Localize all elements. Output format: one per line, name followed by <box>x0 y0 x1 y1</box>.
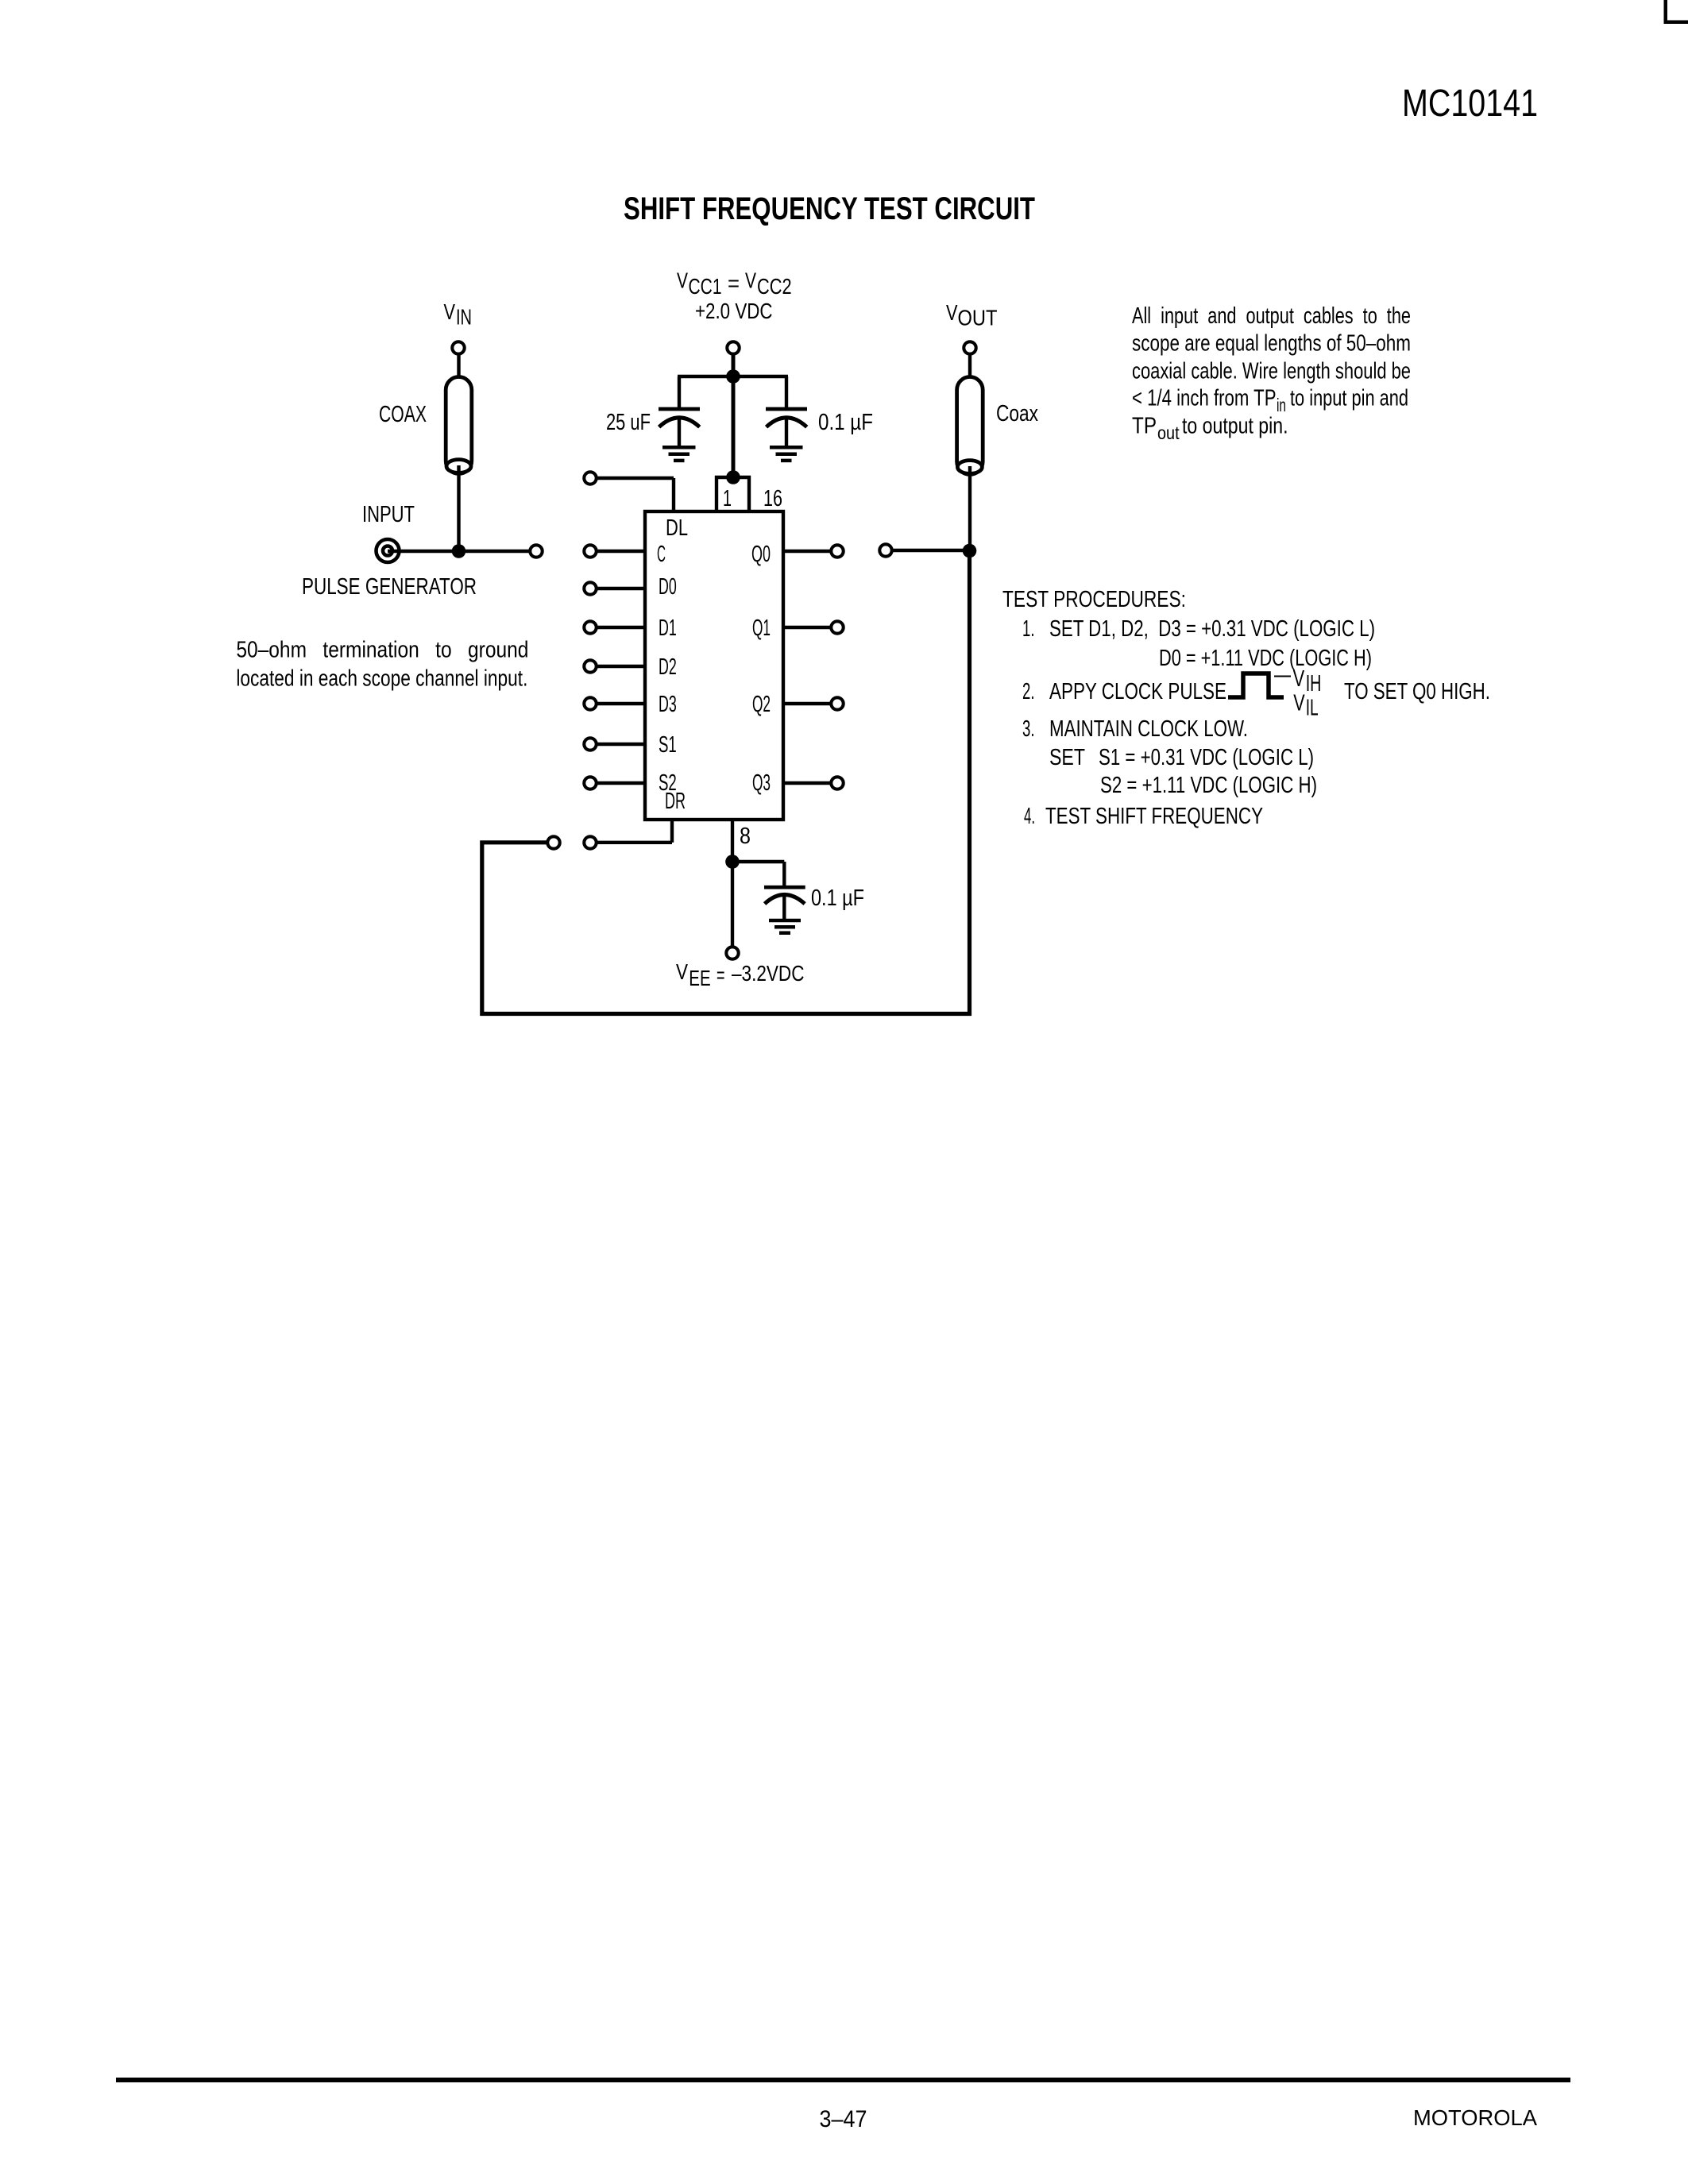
svg-text:V: V <box>946 300 958 325</box>
svg-text:to input pin and: to input pin and <box>1290 386 1408 411</box>
svg-text:CC1: CC1 <box>689 274 722 299</box>
svg-text:Q2: Q2 <box>752 692 771 717</box>
svg-text:out: out <box>1157 423 1180 443</box>
svg-text:SET D1, D2, D3 = +0.31 VDC (L: SET D1, D2, D3 = +0.31 VDC (LOGIC L) <box>1049 616 1375 642</box>
svg-text:8: 8 <box>740 824 751 849</box>
svg-text:3–47: 3–47 <box>820 2106 867 2132</box>
svg-text:TEST SHIFT FREQUENCY: TEST SHIFT FREQUENCY <box>1045 804 1263 829</box>
svg-text:V: V <box>1293 691 1305 716</box>
svg-text:TO SET Q0 HIGH.: TO SET Q0 HIGH. <box>1344 679 1490 704</box>
svg-text:to output pin.: to output pin. <box>1182 413 1288 438</box>
svg-text:Q0: Q0 <box>751 542 771 567</box>
svg-text:OUT: OUT <box>958 306 998 330</box>
svg-text:V: V <box>677 268 688 293</box>
svg-text:16: 16 <box>763 486 782 511</box>
svg-text:25 uF: 25 uF <box>606 410 651 435</box>
svg-text:CC2: CC2 <box>757 274 792 299</box>
svg-text:D0 = +1.11 VDC (LOGIC H): D0 = +1.11 VDC (LOGIC H) <box>1159 646 1372 671</box>
svg-text:COAX: COAX <box>379 402 427 427</box>
svg-text:S1 = +0.31 VDC (LOGIC L): S1 = +0.31 VDC (LOGIC L) <box>1099 745 1314 770</box>
svg-text:DR: DR <box>665 789 686 814</box>
svg-text:D1: D1 <box>659 615 677 641</box>
svg-text:2.: 2. <box>1022 679 1035 704</box>
svg-text:MC10141: MC10141 <box>1402 83 1538 125</box>
svg-text:coaxial cable. Wire length sho: coaxial cable. Wire length should be <box>1132 359 1411 384</box>
svg-text:EE: EE <box>689 966 710 990</box>
svg-text:SET: SET <box>1049 745 1085 770</box>
svg-text:IL: IL <box>1306 696 1319 721</box>
svg-text:V: V <box>745 268 756 293</box>
svg-text:scope are equal lengths of 50–: scope are equal lengths of 50–ohm <box>1132 331 1411 357</box>
svg-text:0.1 µF: 0.1 µF <box>818 410 873 435</box>
svg-text:1: 1 <box>723 486 732 511</box>
svg-text:< 1/4 inch from TP: < 1/4 inch from TP <box>1132 386 1277 411</box>
svg-text:IN: IN <box>456 305 472 330</box>
svg-text:Q3: Q3 <box>752 770 771 796</box>
svg-text:SHIFT FREQUENCY TEST CIRCUIT: SHIFT FREQUENCY TEST CIRCUIT <box>624 191 1035 226</box>
svg-text:4.: 4. <box>1024 804 1035 829</box>
svg-text:DL: DL <box>666 515 688 541</box>
svg-text:0.1 µF: 0.1 µF <box>811 886 864 911</box>
svg-text:Coax: Coax <box>996 401 1038 426</box>
svg-text:All input and output cables to: All input and output cables to the <box>1132 303 1411 329</box>
svg-text:=: = <box>717 963 725 987</box>
svg-text:PULSE GENERATOR: PULSE GENERATOR <box>302 574 477 600</box>
svg-text:C: C <box>657 542 666 567</box>
svg-text:D0: D0 <box>659 574 677 600</box>
svg-text:50–ohm termination to gr: 50–ohm termination to ground <box>236 637 528 662</box>
svg-text:MAINTAIN CLOCK LOW.: MAINTAIN CLOCK LOW. <box>1049 716 1248 742</box>
svg-text:located in each scope channel: located in each scope channel input. <box>236 666 527 691</box>
svg-text:3.: 3. <box>1022 716 1035 742</box>
svg-text:S1: S1 <box>659 732 677 758</box>
svg-text:APPY CLOCK PULSE: APPY CLOCK PULSE <box>1049 679 1226 704</box>
svg-text:–3.2VDC: –3.2VDC <box>732 961 805 986</box>
svg-text:MOTOROLA: MOTOROLA <box>1413 2105 1537 2130</box>
svg-text:D3: D3 <box>659 692 677 717</box>
svg-text:V: V <box>444 299 456 324</box>
svg-text:+2.0 VDC: +2.0 VDC <box>695 299 773 323</box>
svg-text:S2 = +1.11 VDC (LOGIC H): S2 = +1.11 VDC (LOGIC H) <box>1100 773 1317 798</box>
svg-text:in: in <box>1277 395 1286 415</box>
svg-text:Q1: Q1 <box>752 615 771 641</box>
svg-text:V: V <box>1293 666 1305 692</box>
svg-text:INPUT: INPUT <box>362 502 415 527</box>
svg-text:=: = <box>728 271 740 295</box>
svg-text:TEST PROCEDURES:: TEST PROCEDURES: <box>1002 587 1186 612</box>
svg-text:IH: IH <box>1306 671 1322 696</box>
svg-text:D2: D2 <box>659 654 677 680</box>
svg-text:1.: 1. <box>1022 616 1035 642</box>
svg-text:V: V <box>676 959 688 984</box>
svg-text:TP: TP <box>1132 413 1157 438</box>
